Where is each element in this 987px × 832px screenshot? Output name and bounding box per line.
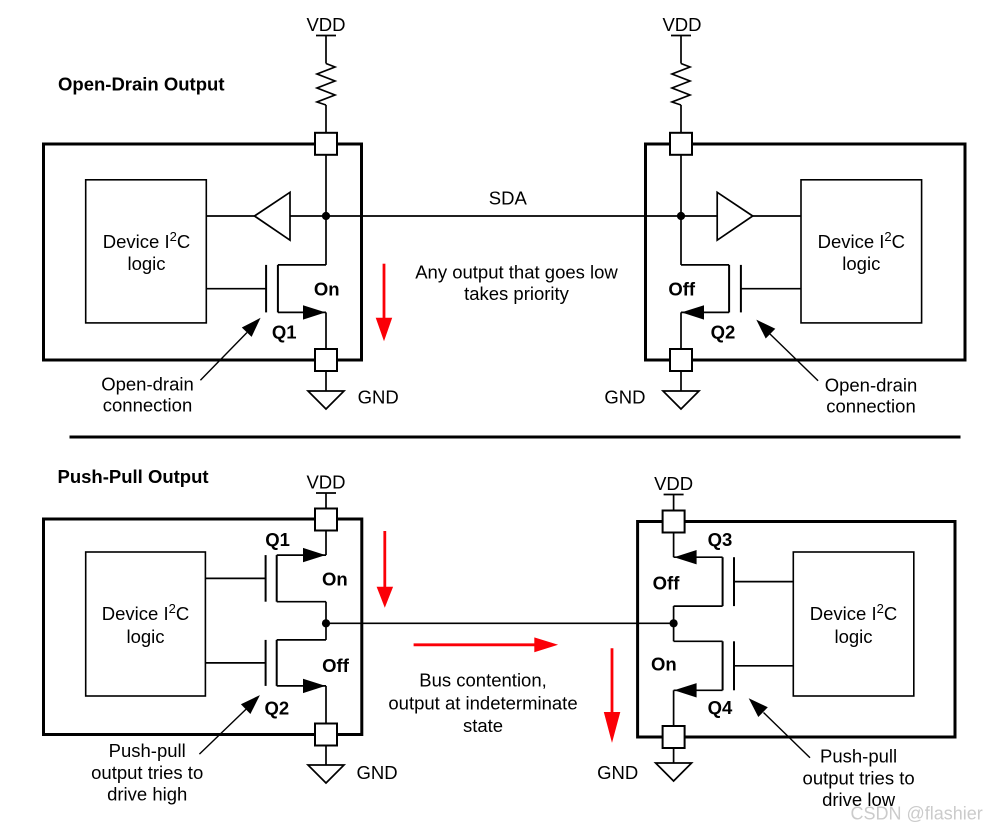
device box (right open-drain device): [646, 144, 966, 360]
wire VDD to resistor: [325, 36, 327, 64]
transistor Q4 gate bar: [733, 641, 735, 690]
wire VDD to resistor: [680, 36, 682, 64]
node C junction dot: [322, 619, 330, 627]
wire buffer to logic: [753, 215, 801, 217]
annotation arrowhead: [756, 320, 775, 339]
wire Q2 source to GND pad: [680, 312, 682, 349]
svg-text:Device I2C: Device I2C: [818, 229, 905, 252]
pin pad (GND boundary): [315, 349, 337, 371]
wire VDD to pad: [673, 495, 675, 512]
wire pad to ground: [325, 371, 327, 391]
annotation arrowhead: [749, 698, 768, 717]
red arrow (right device sinks): [611, 648, 614, 714]
wire pad to node B: [680, 155, 682, 216]
transistor Q2 channel: [728, 265, 730, 313]
logic block U3: [86, 552, 206, 696]
annotation arrowhead: [242, 318, 261, 337]
wire Q3 drain to node D: [673, 606, 675, 623]
wire Q4 source to GND pad: [673, 690, 675, 726]
VDD rail bar: [664, 494, 684, 496]
wire resistor to pad: [325, 105, 327, 133]
svg-text:Push-pull: Push-pull: [109, 740, 186, 761]
transistor Q3 gate wire: [734, 581, 793, 583]
pin pad (GND boundary): [315, 724, 337, 746]
annotation arrowhead: [241, 695, 260, 714]
transistor Q2 gate wire: [741, 288, 801, 290]
wire VDD to pad: [325, 493, 327, 509]
pin pad (VDD boundary): [670, 133, 692, 155]
transistor Q2 top leg: [277, 639, 326, 641]
transistor Q1 gate wire: [206, 288, 266, 290]
svg-text:On: On: [651, 654, 677, 675]
transistor Q4 arrow: [674, 683, 697, 697]
device box (right push-pull device): [638, 522, 955, 738]
svg-text:state: state: [463, 715, 503, 736]
svg-text:Q1: Q1: [272, 322, 297, 343]
transistor Q3 channel: [722, 557, 724, 606]
transistor Q4 top leg: [674, 640, 723, 642]
transistor Q4 channel: [722, 641, 724, 690]
wire node C to Q2 drain: [325, 623, 327, 640]
logic block U1: [86, 180, 207, 323]
wire pad to Q3 source: [673, 533, 675, 558]
wire buffer to node A: [290, 215, 326, 217]
transistor Q1 drain leg: [278, 264, 326, 266]
wire node B to buffer: [681, 215, 717, 217]
wire pad to Q1 source: [325, 531, 327, 556]
wire Q1 drain to node C: [325, 602, 327, 624]
ground symbol: [308, 391, 344, 409]
svg-text:On: On: [322, 568, 348, 589]
transistor Q3 bottom leg: [674, 605, 723, 607]
node A junction dot: [322, 212, 330, 220]
svg-text:Any output that goes low: Any output that goes low: [415, 261, 618, 282]
svg-text:Q4: Q4: [708, 697, 733, 718]
annotation arrow (push-pull drive high): [199, 709, 246, 754]
svg-text:GND: GND: [357, 762, 398, 783]
resistor R2 (pull-up): [672, 64, 690, 106]
annotation arrow (open-drain connection): [200, 333, 247, 381]
transistor Q1 top leg: [277, 554, 326, 556]
svg-text:Off: Off: [322, 655, 350, 676]
svg-text:Bus contention,: Bus contention,: [419, 669, 547, 690]
transistor Q2 source arrow: [682, 305, 705, 319]
pin pad (VDD boundary): [663, 511, 685, 533]
svg-text:VDD: VDD: [306, 14, 345, 35]
transistor Q2 gate wire: [205, 662, 265, 664]
red arrow (current flow down): [383, 264, 386, 319]
pin pad (VDD boundary): [315, 133, 337, 155]
transistor Q1 source leg: [278, 311, 326, 313]
svg-text:VDD: VDD: [306, 472, 345, 493]
transistor Q2 channel: [276, 640, 278, 686]
ground symbol: [663, 391, 699, 409]
svg-text:Open-drain: Open-drain: [825, 374, 918, 395]
wire Q1 source to GND pad: [325, 312, 327, 349]
ground symbol: [656, 763, 692, 781]
svg-text:GND: GND: [597, 762, 638, 783]
wire SDA bus: [326, 215, 681, 217]
wire pad to ground: [673, 748, 675, 763]
svg-text:output tries to: output tries to: [91, 762, 203, 783]
device box (left push-pull device): [44, 519, 362, 735]
svg-text:Q2: Q2: [265, 698, 290, 719]
pin pad (GND boundary): [663, 726, 685, 748]
resistor R1 (pull-up): [317, 64, 335, 106]
pin pad (VDD boundary): [315, 509, 337, 531]
svg-text:takes priority: takes priority: [464, 283, 570, 304]
svg-text:logic: logic: [842, 253, 880, 274]
wire node A down to Q1 drain: [325, 216, 327, 265]
buffer triangle (right): [717, 192, 753, 240]
svg-text:Push-Pull Output: Push-Pull Output: [58, 466, 209, 487]
transistor Q2 bottom leg: [277, 685, 326, 687]
svg-text:GND: GND: [604, 387, 645, 408]
VDD rail bar: [671, 35, 691, 37]
transistor Q1 gate bar: [265, 555, 267, 602]
wire node D to Q4 drain: [673, 623, 675, 641]
svg-text:GND: GND: [358, 387, 399, 408]
transistor Q1 channel: [277, 265, 279, 313]
wire pad to ground: [325, 746, 327, 766]
transistor Q1 gate wire: [205, 577, 265, 579]
svg-text:Push-pull: Push-pull: [820, 745, 897, 766]
svg-text:logic: logic: [834, 626, 872, 647]
transistor Q3 top leg: [674, 556, 723, 558]
svg-text:output tries to: output tries to: [803, 768, 915, 789]
transistor Q3 gate bar: [733, 557, 735, 606]
transistor Q1 source arrow: [303, 305, 326, 319]
transistor Q1 channel: [276, 555, 278, 602]
red arrowhead: [534, 637, 558, 652]
transistor Q2 gate bar: [740, 265, 742, 313]
svg-text:drive high: drive high: [107, 784, 187, 805]
svg-text:Off: Off: [668, 279, 696, 300]
node D junction dot: [670, 619, 678, 627]
svg-text:Q3: Q3: [708, 529, 733, 550]
device box (left open-drain device): [44, 144, 362, 360]
svg-text:logic: logic: [126, 626, 164, 647]
wire node B down to Q2 drain: [680, 216, 682, 265]
pin pad (GND boundary): [670, 349, 692, 371]
red arrow (left device drives): [383, 531, 386, 589]
transistor Q1 arrow: [303, 548, 326, 562]
annotation arrow (open-drain connection): [770, 334, 818, 381]
section divider: [70, 436, 961, 439]
red arrowhead: [376, 318, 393, 341]
red arrow (contention current): [414, 643, 536, 646]
VDD rail bar: [316, 35, 336, 37]
svg-text:CSDN @flashier: CSDN @flashier: [851, 804, 983, 824]
svg-text:On: On: [314, 279, 340, 300]
svg-text:Q1: Q1: [265, 529, 290, 550]
transistor Q2 source leg: [681, 311, 729, 313]
buffer triangle: [255, 192, 291, 240]
svg-text:Device I2C: Device I2C: [102, 601, 189, 624]
wire bus between devices: [326, 622, 674, 624]
svg-text:connection: connection: [103, 395, 192, 416]
svg-text:output at indeterminate: output at indeterminate: [388, 693, 577, 714]
ground symbol: [308, 765, 344, 783]
logic block U2: [801, 180, 922, 323]
red arrowhead: [377, 587, 394, 608]
red arrowhead: [604, 712, 621, 743]
wire resistor to pad: [680, 105, 682, 133]
svg-text:Device I2C: Device I2C: [810, 601, 897, 624]
annotation arrow (push-pull drive low): [764, 713, 811, 758]
svg-text:Q2: Q2: [711, 322, 736, 343]
wire pad to node A: [325, 155, 327, 216]
node B junction dot: [677, 212, 685, 220]
input buffer (left): [206, 215, 254, 217]
transistor Q4 bottom leg: [674, 689, 723, 691]
svg-text:VDD: VDD: [662, 14, 701, 35]
transistor Q2 gate bar: [265, 640, 267, 686]
svg-text:Open-Drain Output: Open-Drain Output: [58, 74, 224, 95]
svg-text:connection: connection: [826, 396, 915, 417]
VDD rail bar: [316, 492, 336, 494]
svg-text:Device I2C: Device I2C: [103, 229, 190, 252]
wire pad to ground: [680, 371, 682, 391]
transistor Q3 arrow: [674, 550, 697, 564]
logic block U4: [793, 552, 914, 696]
svg-text:SDA: SDA: [489, 187, 528, 208]
transistor Q1 gate bar: [265, 265, 267, 313]
svg-text:VDD: VDD: [654, 473, 693, 494]
transistor Q2 arrow: [303, 679, 326, 693]
transistor Q1 bottom leg: [277, 601, 326, 603]
wire Q2 source to GND pad: [325, 686, 327, 724]
svg-text:Open-drain: Open-drain: [101, 373, 194, 394]
transistor Q4 gate wire: [734, 665, 793, 667]
svg-text:logic: logic: [127, 253, 165, 274]
transistor Q2 drain leg: [681, 264, 729, 266]
svg-text:Off: Off: [653, 573, 681, 594]
